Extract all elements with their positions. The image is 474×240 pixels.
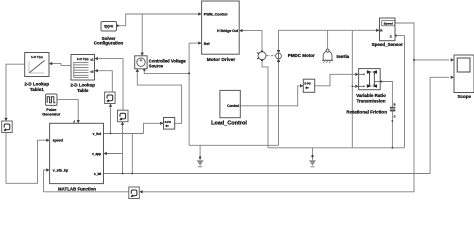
svg-text:u2: u2 xyxy=(90,69,94,73)
svg-text:Ref: Ref xyxy=(204,42,211,46)
svg-text:Generator: Generator xyxy=(42,112,61,116)
svg-text:Load_Control: Load_Control xyxy=(211,121,247,127)
svg-text:v_fud: v_fud xyxy=(93,132,102,136)
svg-text:2-D T(u): 2-D T(u) xyxy=(77,57,89,61)
svg-text:R: R xyxy=(394,103,396,107)
svg-text:Scope: Scope xyxy=(458,94,472,99)
svg-text:v_app: v_app xyxy=(92,152,101,156)
svg-text:S-PS: S-PS xyxy=(304,82,310,86)
svg-text:v_stb_kp: v_stb_kp xyxy=(53,168,69,172)
svg-text:f(x)=0: f(x)=0 xyxy=(104,25,113,29)
svg-text:H Bridge Out: H Bridge Out xyxy=(217,29,239,33)
svg-text:Variable Ratio: Variable Ratio xyxy=(356,93,386,98)
svg-text:C: C xyxy=(394,114,396,118)
svg-text:2-D Lookup: 2-D Lookup xyxy=(24,82,49,87)
svg-text:Configuration: Configuration xyxy=(94,41,124,46)
svg-text:Table: Table xyxy=(77,88,89,93)
svg-text:Control: Control xyxy=(227,104,239,108)
svg-text:Motor Driver: Motor Driver xyxy=(207,57,236,63)
svg-text:Transmission: Transmission xyxy=(356,98,385,103)
svg-text:S-PS: S-PS xyxy=(165,120,171,124)
svg-text:PWM_Control: PWM_Control xyxy=(204,12,228,16)
svg-text:2-D Lookup: 2-D Lookup xyxy=(70,83,95,88)
svg-text:Inertia: Inertia xyxy=(337,54,350,59)
svg-text:u1: u1 xyxy=(90,57,94,61)
svg-text:s_lat: s_lat xyxy=(94,172,102,176)
svg-text:Rotational Friction: Rotational Friction xyxy=(346,110,387,115)
svg-text:speed: speed xyxy=(53,139,63,143)
svg-text:Source: Source xyxy=(149,63,164,68)
svg-text:Speed_Sensor: Speed_Sensor xyxy=(372,42,404,47)
svg-text:Speed: Speed xyxy=(384,22,393,26)
svg-text:Table1: Table1 xyxy=(30,87,44,92)
svg-text:PMDC Motor: PMDC Motor xyxy=(288,53,315,58)
svg-text:1-D T(u): 1-D T(u) xyxy=(31,55,43,59)
svg-text:MATLAB Function: MATLAB Function xyxy=(58,187,96,192)
